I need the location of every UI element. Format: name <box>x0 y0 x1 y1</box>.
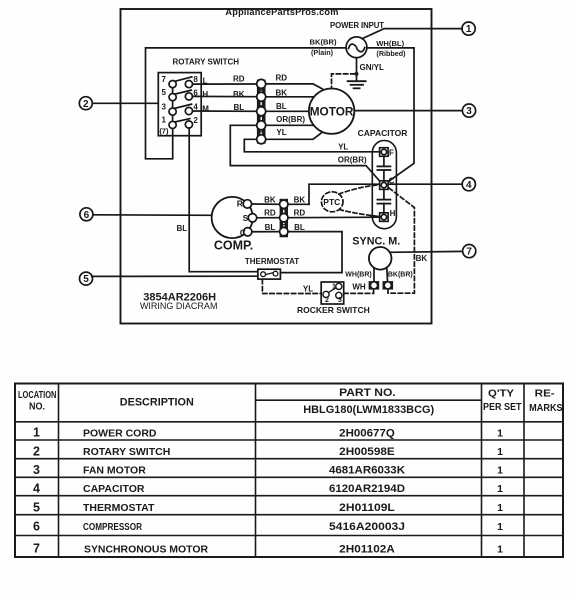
wire RD connector to motor <box>266 84 323 89</box>
rocker switch lever <box>328 288 337 293</box>
callout line from sync motor to 7 <box>390 250 463 253</box>
svg-text:PART NO.: PART NO. <box>339 387 396 399</box>
svg-text:RD: RD <box>294 208 306 217</box>
callout line from motor to 3 <box>354 110 462 112</box>
capacitor body outline <box>372 141 396 229</box>
svg-text:BK: BK <box>264 195 276 204</box>
svg-text:RD: RD <box>264 208 276 217</box>
svg-text:3: 3 <box>33 463 40 477</box>
wire BL connector to motor <box>266 110 310 112</box>
power input AC source symbol <box>346 37 367 58</box>
wire BL from rotary 2 down to thermostat <box>189 128 258 272</box>
sync motor terminal stems <box>374 268 388 282</box>
callout circle 7 <box>463 245 476 258</box>
svg-text:THERMOSTAT: THERMOSTAT <box>83 502 155 514</box>
svg-text:1: 1 <box>497 465 503 477</box>
svg-text:1: 1 <box>161 116 166 125</box>
rotary switch terminals left column <box>169 81 176 129</box>
svg-text:POWER CORD: POWER CORD <box>83 427 157 439</box>
label WH(BL) (Ribbed) <box>376 39 406 58</box>
table row 2 ROTARY SWITCH <box>33 444 503 458</box>
svg-text:SYNCHRONOUS MOTOR: SYNCHRONOUS MOTOR <box>84 543 208 555</box>
svg-text:OR(BR): OR(BR) <box>276 115 305 124</box>
callout circle 2 <box>79 97 92 110</box>
svg-text:BK: BK <box>233 90 245 99</box>
svg-text:4: 4 <box>193 102 198 111</box>
svg-text:DESCRIPTION: DESCRIPTION <box>120 396 194 408</box>
wire BL comp to thermostat <box>281 232 342 273</box>
svg-text:PTC: PTC <box>323 197 340 207</box>
capacitor terminal F <box>380 148 389 157</box>
stem from power input to ground <box>356 58 358 81</box>
table row 5 THERMOSTAT <box>33 500 503 514</box>
svg-text:COMP.: COMP. <box>214 239 253 253</box>
fan motor <box>309 89 354 134</box>
svg-text:4: 4 <box>33 481 40 495</box>
callout circle 1 <box>462 22 475 35</box>
svg-text:7: 7 <box>33 541 40 555</box>
svg-text:YL: YL <box>276 128 286 137</box>
capacitor terminal H <box>380 213 389 222</box>
rocker switch box <box>321 282 344 304</box>
PTC thermistor dashed <box>321 192 343 212</box>
svg-text:4: 4 <box>466 180 472 191</box>
callout line to 1 <box>363 29 463 39</box>
dashed WH wire rocker to sync motor terminal <box>344 290 374 294</box>
sync motor terminal WH(BR) <box>369 281 380 290</box>
svg-text:7: 7 <box>161 75 166 84</box>
svg-text:FAN MOTOR: FAN MOTOR <box>83 465 146 477</box>
table header labels <box>18 387 563 416</box>
wire RD comp to capacitor H <box>288 216 380 219</box>
svg-text:BL: BL <box>176 224 187 233</box>
wire comp BK to capacitor C and callout 4 <box>309 184 462 204</box>
svg-text:1: 1 <box>33 426 40 440</box>
svg-text:ROTARY SWITCH: ROTARY SWITCH <box>83 446 170 458</box>
svg-text:WH(BR): WH(BR) <box>345 272 371 279</box>
svg-text:5: 5 <box>161 88 166 97</box>
wire YL from connector to capacitor F <box>244 139 379 152</box>
junction node dot <box>355 72 359 76</box>
diagram border frame <box>121 9 432 324</box>
dashed GN/YL wire to motor frame <box>332 74 356 88</box>
capacitor plates F-C <box>377 156 390 181</box>
dashed YL wire thermostat to rocker switch <box>262 279 321 293</box>
svg-text:F: F <box>389 148 394 157</box>
capacitor plates C-H <box>377 189 390 213</box>
svg-text:1: 1 <box>497 446 503 458</box>
svg-text:NO.: NO. <box>29 402 45 413</box>
svg-text:BK: BK <box>276 89 288 98</box>
svg-text:H: H <box>390 209 396 218</box>
dashed link PTC to C <box>339 185 380 194</box>
pin letters L H M <box>202 77 209 114</box>
svg-text:BL: BL <box>265 223 276 232</box>
svg-text:3: 3 <box>338 297 342 304</box>
svg-text:MOTOR: MOTOR <box>310 104 354 118</box>
parts table grid <box>15 384 563 558</box>
svg-text:POWER INPUT: POWER INPUT <box>330 21 384 30</box>
svg-text:HBLG180(LWM1833BCG): HBLG180(LWM1833BCG) <box>303 404 434 416</box>
rotary switch common bus wire <box>172 84 174 125</box>
svg-text:RD: RD <box>276 73 288 82</box>
svg-text:BL: BL <box>276 102 287 111</box>
pin numbers 8 6 4 2 <box>193 75 198 125</box>
svg-text:1: 1 <box>497 521 503 533</box>
svg-text:1: 1 <box>497 483 503 495</box>
svg-text:2H01102A: 2H01102A <box>339 543 395 555</box>
callout circle 6 <box>80 208 93 221</box>
callout circle 4 <box>462 178 475 191</box>
label BK(BR) (Plain) <box>310 38 337 57</box>
svg-text:S: S <box>243 213 249 223</box>
svg-text:WH: WH <box>352 282 366 291</box>
svg-text:BL: BL <box>233 103 244 112</box>
svg-text:LOCATION: LOCATION <box>18 390 57 401</box>
svg-text:ROCKER SWITCH: ROCKER SWITCH <box>297 305 370 315</box>
svg-text:R: R <box>237 199 243 209</box>
svg-text:SYNC. M.: SYNC. M. <box>352 235 400 247</box>
dashed wire BK capacitor C to sync motor terminal <box>388 188 414 293</box>
svg-text:GN/YL: GN/YL <box>360 63 385 72</box>
svg-text:5: 5 <box>33 500 40 514</box>
table row 6 COMPRESSOR <box>33 520 503 534</box>
wire OR(BR) from connector to capacitor C <box>230 125 379 181</box>
dashed link PTC to H <box>339 210 379 217</box>
table row 4 CAPACITOR <box>33 481 503 495</box>
svg-text:(Ribbed): (Ribbed) <box>376 49 406 58</box>
svg-text:4681AR6033K: 4681AR6033K <box>329 465 405 477</box>
rotary switch terminals right column <box>185 81 192 129</box>
svg-text:RD: RD <box>233 74 245 83</box>
svg-text:WH(BL): WH(BL) <box>376 39 404 48</box>
svg-text:BK: BK <box>294 195 306 204</box>
rocker pin numbers 1 2 3 <box>325 283 342 304</box>
svg-text:CAPACITOR: CAPACITOR <box>83 483 145 495</box>
compressor terminal R <box>243 200 251 208</box>
svg-text:BK(BR): BK(BR) <box>388 272 413 279</box>
svg-text:C: C <box>240 227 246 237</box>
svg-text:M: M <box>202 104 209 113</box>
wire H BK from rotary 6 to connector <box>193 95 257 97</box>
table row 3 FAN MOTOR <box>33 463 503 477</box>
svg-text:YL: YL <box>338 142 348 151</box>
svg-text:(7): (7) <box>159 126 169 135</box>
svg-text:2H01109L: 2H01109L <box>339 502 395 514</box>
wire YL connector to motor <box>266 133 322 139</box>
table row 1 POWER CORD <box>33 426 503 440</box>
wire L RD from rotary 8 to connector <box>193 83 257 85</box>
svg-text:5: 5 <box>83 274 89 285</box>
pin numbers 7 5 3 1 (7) <box>159 75 169 136</box>
compressor terminal stubs <box>247 204 280 232</box>
connector terminal block <box>257 80 266 144</box>
wire OR(BR) connector to motor <box>266 124 314 126</box>
rotary switch wiper contacts <box>175 77 192 122</box>
svg-text:PER SET: PER SET <box>483 402 522 413</box>
wire BK comp to riser <box>288 203 309 205</box>
svg-text:8: 8 <box>193 75 198 84</box>
svg-text:2: 2 <box>83 99 89 110</box>
thermostat terminals <box>261 271 278 276</box>
callout line from 6 to compressor <box>93 214 212 217</box>
thermostat switch blade <box>265 273 274 275</box>
svg-text:Q'TY: Q'TY <box>488 389 514 400</box>
wire BK from power input to rotary switch terminal 1 <box>146 48 347 159</box>
sync motor terminal BK(BR) <box>383 281 394 290</box>
svg-text:2H00677Q: 2H00677Q <box>339 427 395 439</box>
svg-text:6: 6 <box>33 520 40 534</box>
svg-text:3: 3 <box>161 102 166 111</box>
svg-text:MARKS: MARKS <box>529 403 563 414</box>
svg-text:1: 1 <box>497 427 503 439</box>
callout circle 5 <box>80 272 93 285</box>
compressor connector block <box>280 199 288 238</box>
svg-text:BK(BR): BK(BR) <box>310 38 337 47</box>
svg-text:1: 1 <box>466 24 472 35</box>
callout circle 3 <box>462 104 475 117</box>
svg-text:(Plain): (Plain) <box>311 48 334 57</box>
callout line from 2 to rotary switch <box>92 102 158 104</box>
svg-text:THERMOSTAT: THERMOSTAT <box>245 257 299 266</box>
svg-text:OR(BR): OR(BR) <box>338 155 367 164</box>
connector block white dashes <box>260 81 262 143</box>
rocker switch contacts <box>323 283 342 298</box>
callout line from 5 to thermostat <box>92 275 258 277</box>
svg-text:1: 1 <box>497 502 503 514</box>
svg-text:YL: YL <box>303 285 313 294</box>
svg-text:2H00598E: 2H00598E <box>339 446 395 458</box>
wire M BL from rotary 4 to connector <box>193 110 257 112</box>
svg-text:RE-: RE- <box>535 389 555 400</box>
svg-text:2: 2 <box>325 297 329 304</box>
svg-text:COMPRESSOR: COMPRESSOR <box>83 521 142 533</box>
compressor terminal S <box>248 214 256 222</box>
svg-text:5416A20003J: 5416A20003J <box>329 521 405 533</box>
svg-text:1: 1 <box>332 283 336 290</box>
compressor terminal C <box>244 228 252 236</box>
svg-text:6: 6 <box>84 210 90 221</box>
svg-text:H: H <box>202 90 208 99</box>
svg-text:C: C <box>389 176 395 185</box>
svg-text:BL: BL <box>294 223 305 232</box>
svg-text:1: 1 <box>497 543 503 555</box>
svg-text:2: 2 <box>193 116 198 125</box>
svg-text:6120AR2194D: 6120AR2194D <box>329 483 405 495</box>
table row 7 SYNCHRONOUS MOTOR <box>33 541 503 555</box>
svg-text:BK: BK <box>416 254 428 263</box>
svg-text:2: 2 <box>33 444 40 458</box>
svg-text:WIRING DIACRAM: WIRING DIACRAM <box>140 301 218 311</box>
synchronous motor circle <box>369 247 392 270</box>
thermostat box <box>258 269 281 279</box>
svg-text:CAPACITOR: CAPACITOR <box>358 128 408 138</box>
compressor block terminals <box>280 200 288 236</box>
compressor circle <box>212 197 253 238</box>
wire BK connector to motor <box>266 96 314 98</box>
ground symbol <box>348 81 366 88</box>
compressor block white dashes <box>283 200 285 236</box>
connector terminals <box>257 79 266 143</box>
wire WH from power input down right side <box>367 48 414 182</box>
svg-text:ROTARY SWITCH: ROTARY SWITCH <box>173 58 240 67</box>
svg-text:3: 3 <box>466 106 472 117</box>
svg-text:7: 7 <box>466 247 472 258</box>
rotary switch box <box>158 73 201 136</box>
capacitor terminal C <box>380 181 389 190</box>
